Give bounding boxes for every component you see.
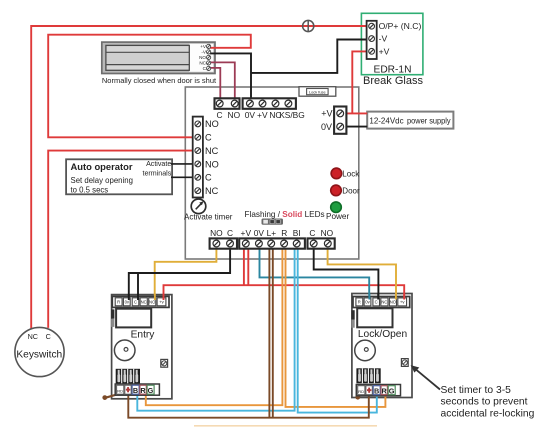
LED power bbox=[331, 202, 342, 213]
board left terminal strip bbox=[193, 117, 203, 198]
entry connector block bbox=[116, 369, 140, 384]
LED lock bbox=[331, 168, 342, 179]
EDR-1N break glass box bbox=[361, 13, 423, 74]
entry display window bbox=[116, 309, 151, 328]
wire red: keyswitch C to board NC terminal bbox=[48, 151, 193, 328]
svg-text:Keyswitch: Keyswitch bbox=[16, 350, 62, 361]
board top terminal block 0V +V NC KS/BG bbox=[243, 98, 296, 109]
wire red: break glass +V drop bbox=[352, 51, 366, 113]
svg-text:C: C bbox=[46, 332, 51, 341]
maglock ML1 body bbox=[102, 42, 215, 73]
lock/open unit top terminal strip bbox=[353, 297, 410, 308]
lock strip labels bbox=[358, 300, 406, 305]
svg-text:KS/BG: KS/BG bbox=[279, 110, 305, 120]
svg-text:R: R bbox=[358, 300, 361, 305]
svg-text:NO: NO bbox=[199, 55, 206, 60]
entry sounder bbox=[114, 340, 135, 361]
svg-text:Lock: Lock bbox=[342, 169, 360, 178]
entry output row RD + B R G bbox=[115, 384, 159, 395]
svg-text:+V: +V bbox=[200, 44, 207, 49]
entry unit top terminal strip bbox=[112, 296, 169, 307]
svg-text:0V: 0V bbox=[254, 228, 265, 238]
svg-text:R: R bbox=[281, 228, 287, 238]
wire red: keyswitch NC to break glass O/P+ bbox=[31, 26, 366, 330]
lock side tab bbox=[351, 310, 354, 328]
svg-text:C: C bbox=[227, 228, 233, 238]
svg-text:Power: Power bbox=[326, 212, 349, 221]
wire maroon: maglock NC to board NO bbox=[209, 62, 235, 99]
wire red: +V bus to entry +v and lock +v bbox=[164, 285, 405, 297]
svg-text:R: R bbox=[117, 299, 120, 304]
svg-text:NC: NC bbox=[205, 146, 219, 156]
wire black: board C-C to lock C bbox=[314, 247, 379, 296]
svg-text:0V: 0V bbox=[245, 110, 256, 120]
svg-text:Activate timer: Activate timer bbox=[184, 212, 233, 221]
lock display window bbox=[357, 308, 392, 327]
svg-text:Set timer to 3-5: Set timer to 3-5 bbox=[441, 385, 512, 396]
svg-text:Normally closed when door is s: Normally closed when door is shut bbox=[102, 76, 217, 85]
svg-text:NC: NC bbox=[199, 61, 206, 66]
svg-text:+V: +V bbox=[379, 46, 390, 56]
entry trimpot bbox=[161, 359, 168, 367]
board side terminal block +V 0V bbox=[334, 107, 346, 134]
svg-text:C: C bbox=[375, 300, 378, 305]
wire black: maglock -V to board 0V with branch to break glass -V bbox=[210, 53, 251, 99]
activate timer dial bbox=[191, 199, 206, 214]
svg-text:L+: L+ bbox=[267, 228, 277, 238]
board bottom terminal labels bbox=[210, 228, 334, 238]
lock trimpot bbox=[401, 359, 408, 367]
svg-text:Flashing / Solid LEDs: Flashing / Solid LEDs bbox=[245, 210, 325, 219]
board bottom terminal block C NO bbox=[308, 238, 335, 248]
12-24Vdc power supply box bbox=[367, 112, 453, 129]
break glass labels bbox=[379, 21, 422, 56]
wire maroon: maglock C to board C bbox=[209, 68, 221, 100]
board bottom terminal block NO C bbox=[210, 238, 237, 248]
lock sounder bbox=[355, 340, 376, 361]
wire black: board 0V to power supply bbox=[346, 126, 367, 128]
wire brown: lock RD pigtail bbox=[355, 394, 361, 400]
svg-text:Lock fuse: Lock fuse bbox=[309, 89, 326, 94]
svg-text:Lock/Open: Lock/Open bbox=[358, 329, 407, 340]
keyswitch SW1 bbox=[15, 327, 64, 376]
wire yellow: board NO-C to lock NO bbox=[328, 247, 396, 296]
svg-text:+V: +V bbox=[257, 110, 268, 120]
svg-text:C: C bbox=[134, 299, 137, 304]
wire brown: entry RD pigtail bbox=[102, 394, 118, 400]
svg-text:terminals: terminals bbox=[143, 170, 172, 178]
svg-text:B: B bbox=[133, 386, 138, 395]
wire red: board C terminal to keyswitch riser to maglock +V bbox=[48, 35, 251, 138]
wire orange: lock R bus bbox=[286, 248, 386, 407]
wire black: activate terminal stubs bbox=[171, 163, 193, 165]
entry side tab bbox=[111, 309, 114, 327]
svg-text:+V: +V bbox=[241, 228, 252, 238]
wire black: board C-A to entry 0v and C bbox=[129, 247, 230, 296]
svg-text:Entry: Entry bbox=[131, 330, 156, 341]
svg-text:R: R bbox=[140, 386, 146, 395]
LED door bbox=[331, 185, 342, 196]
inline connector fuse F1 bbox=[303, 20, 314, 31]
board top terminal labels bbox=[216, 110, 304, 120]
svg-text:G: G bbox=[148, 386, 154, 395]
svg-text:NO: NO bbox=[321, 228, 334, 238]
svg-text:NO: NO bbox=[205, 119, 219, 129]
svg-text:NO: NO bbox=[210, 228, 223, 238]
lock fuse holder bbox=[299, 87, 336, 97]
maglock terminal screws bbox=[207, 44, 211, 70]
svg-text:NO: NO bbox=[205, 159, 219, 169]
svg-text:accidental re-locking: accidental re-locking bbox=[441, 408, 535, 419]
svg-text:C: C bbox=[205, 173, 212, 183]
svg-text:RD: RD bbox=[117, 388, 123, 393]
lock output row RD + B R G bbox=[356, 385, 400, 396]
svg-text:B: B bbox=[374, 386, 379, 395]
svg-text:0V: 0V bbox=[321, 122, 332, 132]
auto operator box bbox=[66, 159, 172, 194]
board top terminal block C NO bbox=[215, 98, 240, 109]
board left strip labels bbox=[205, 119, 219, 196]
wire faint spare bbox=[194, 425, 377, 427]
wire stubs into entry strip bbox=[129, 294, 164, 300]
svg-text:O/P+ (N.C): O/P+ (N.C) bbox=[379, 21, 422, 31]
svg-text:NO: NO bbox=[228, 110, 241, 120]
svg-text:Auto operator: Auto operator bbox=[71, 161, 133, 172]
svg-text:RD: RD bbox=[358, 389, 364, 394]
entry strip labels bbox=[117, 299, 165, 304]
svg-text:BI: BI bbox=[293, 228, 301, 238]
svg-text:NC: NC bbox=[205, 186, 219, 196]
svg-text:-V: -V bbox=[379, 34, 388, 44]
entry unit body bbox=[112, 295, 172, 399]
controller board U1 outline bbox=[185, 87, 358, 259]
dip switch badge bbox=[262, 219, 284, 225]
svg-text:to 0.5 secs: to 0.5 secs bbox=[71, 185, 109, 194]
svg-text:C: C bbox=[205, 133, 212, 143]
svg-text:12-24Vdc: 12-24Vdc bbox=[369, 116, 403, 126]
set timer arrow bbox=[411, 365, 440, 389]
svg-text:R: R bbox=[381, 386, 387, 395]
svg-text:Activate: Activate bbox=[146, 160, 171, 168]
svg-text:NC: NC bbox=[381, 300, 387, 305]
svg-text:Door: Door bbox=[342, 186, 360, 195]
svg-text:NO: NO bbox=[390, 300, 397, 305]
wire orange: entry R bus bbox=[146, 248, 283, 405]
svg-text:EDR-1N: EDR-1N bbox=[374, 64, 412, 75]
svg-text:seconds to prevent: seconds to prevent bbox=[441, 397, 528, 408]
svg-text:NC: NC bbox=[28, 332, 38, 341]
wire cyan: lock B bus bbox=[298, 248, 377, 413]
svg-text:G: G bbox=[389, 386, 395, 395]
wire brown: L+ bus entry + to lock + bbox=[128, 394, 368, 418]
svg-text:Set delay opening: Set delay opening bbox=[71, 176, 133, 185]
lock connector block bbox=[356, 368, 380, 383]
svg-text:NC: NC bbox=[141, 299, 147, 304]
wire cyan: entry B bus bbox=[137, 248, 294, 411]
board bottom terminal block +V 0V L+ R BI bbox=[239, 238, 305, 248]
wire yellow: board NO-A to entry NO bbox=[155, 248, 217, 295]
wire stubs into lock strip bbox=[369, 294, 404, 300]
svg-text:Break Glass: Break Glass bbox=[363, 75, 423, 87]
lock/open unit body bbox=[352, 294, 412, 398]
svg-text:+V: +V bbox=[321, 109, 332, 119]
wire teal: board 0V to lock 0v bbox=[260, 248, 370, 296]
svg-text:NO: NO bbox=[149, 299, 156, 304]
maglock terminal labels bbox=[199, 44, 207, 71]
wire red: board +V to power supply bbox=[346, 112, 367, 114]
svg-text:C: C bbox=[309, 228, 315, 238]
svg-text:power supply: power supply bbox=[407, 116, 451, 125]
break glass terminal block bbox=[367, 21, 377, 59]
